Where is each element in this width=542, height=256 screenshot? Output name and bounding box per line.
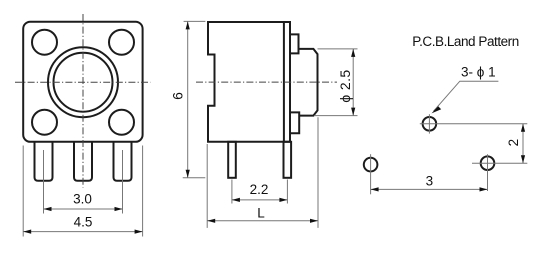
dim line 4.5 (23, 231, 142, 233)
cross hole bottom-right vertical + ext line 3 right (487, 154, 489, 191)
side leg right (284, 142, 292, 178)
arrow L left (207, 219, 215, 223)
body outline with left groove (208, 22, 290, 142)
svg-text:2: 2 (506, 139, 521, 147)
dim line phi2.5 (352, 49, 354, 116)
extension line body left (22, 146, 24, 237)
arrow 2 top (521, 124, 525, 132)
svg-text:L: L (257, 205, 265, 220)
leg 3 (right) (114, 142, 132, 181)
svg-text:3.0: 3.0 (73, 192, 92, 207)
svg-text:ϕ 2.5: ϕ 2.5 (337, 69, 353, 102)
arrow 3.0 right (115, 207, 123, 211)
arrow 3 right (480, 187, 488, 191)
push button shaft (298, 49, 318, 116)
leg 2 (middle) (74, 142, 92, 181)
svg-text:P.C.B.Land Pattern: P.C.B.Land Pattern (412, 34, 518, 49)
ext line 2.2 left (231, 180, 233, 204)
bottom flange tab (290, 112, 300, 133)
side leg left (228, 142, 236, 178)
arrow 4.5 left (23, 230, 31, 234)
ext line phi2.5 top (318, 48, 358, 50)
arrow 4.5 right (135, 230, 143, 234)
corner boss bottom-right (109, 110, 134, 135)
corner boss top-right (109, 30, 134, 55)
hole top (423, 117, 437, 131)
svg-text:2.2: 2.2 (250, 182, 269, 197)
ext line 2.2 right (286, 180, 288, 204)
centerline horizontal (15, 81, 151, 83)
dim line L (207, 220, 318, 222)
leader line 3-phi1 (434, 81, 499, 111)
arrow 2 bottom (521, 155, 525, 163)
arrow phi2.5 bottom (351, 108, 355, 116)
svg-text:4.5: 4.5 (74, 215, 93, 230)
hole bottom-left (364, 158, 378, 172)
ext line L left (206, 144, 208, 228)
inner right wall (283, 22, 285, 142)
arrow 3 left (371, 187, 379, 191)
dim line 2 (522, 124, 524, 163)
centerline middle view (196, 81, 337, 83)
arrow phi2.5 top (351, 49, 355, 57)
ext line L right (317, 117, 319, 228)
cross hole top + ext line 2 top (420, 123, 528, 125)
dim line 6 (187, 21, 189, 177)
extension line leg3 center (122, 150, 124, 214)
arrow L right (310, 219, 318, 223)
ext line 6 bottom (183, 177, 206, 179)
button outer circle (48, 47, 118, 117)
leader arrow (432, 106, 442, 113)
cross hole bottom-left vertical + ext line 3 left (370, 154, 372, 194)
arrow 6 bottom (186, 170, 190, 178)
switch body outline (23, 22, 142, 142)
ext line 6 top (184, 20, 206, 22)
arrow 2.2 left (232, 198, 240, 202)
top flange tab (290, 34, 299, 53)
dim line 2.2 (232, 199, 288, 201)
corner boss bottom-left (32, 110, 57, 135)
leg 1 (left) (35, 142, 53, 181)
extension line leg1 center (43, 150, 45, 214)
arrow 3.0 left (44, 207, 52, 211)
centerline vertical (82, 14, 84, 188)
svg-text:6: 6 (170, 92, 186, 100)
arrow 2.2 right (279, 198, 287, 202)
svg-text:3: 3 (426, 174, 434, 189)
dim line 3 (371, 188, 488, 190)
dim line 3.0 (44, 208, 123, 210)
svg-text:3- ϕ 1: 3- ϕ 1 (461, 65, 496, 80)
cross hole bottom-right horizontal + ext line 2 bottom (472, 162, 527, 164)
button inner circle (54, 53, 113, 112)
ext line phi2.5 bottom (314, 115, 358, 117)
extension line body right (142, 146, 144, 237)
arrow 6 top (186, 21, 190, 29)
hole bottom-right (481, 156, 495, 170)
corner boss top-left (32, 30, 57, 55)
